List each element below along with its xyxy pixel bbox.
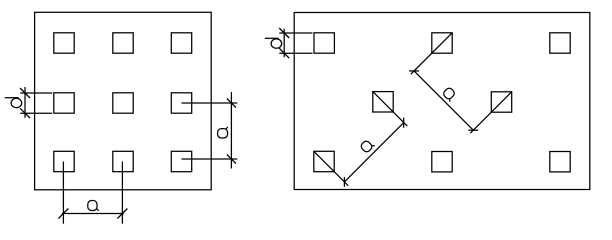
chain B: dimension line	[414, 71, 473, 130]
dimension d (left): dimension line	[24, 87, 26, 118]
hole (row2,col3)	[171, 93, 191, 113]
dimension a (bottom): extension line left	[62, 162, 64, 224]
dimension d (left): extension line bottom	[20, 112, 52, 114]
dimension d (left): tick bottom	[20, 108, 30, 118]
dimension a (bottom): tick right	[117, 209, 127, 219]
dimension d (right plate): tick bottom	[279, 48, 289, 58]
dimension d (left): extension line top	[20, 92, 52, 94]
chain B: diagonal of hole M4 extended (extension line)	[470, 92, 511, 133]
hole (row1,col3)	[171, 33, 191, 53]
hole (row2,col2)	[113, 93, 133, 113]
hole (row3,col3)	[171, 151, 191, 171]
chain A: diagonal of hole M1 extended (extension line)	[314, 151, 348, 185]
chain A: dimension line	[344, 123, 403, 182]
dimension d (right plate): dimension line	[283, 29, 285, 57]
plate outline left	[35, 12, 212, 190]
hole bottom-left M1	[314, 151, 334, 171]
chain B: diagonal of hole M3 extended (extension line)	[411, 33, 452, 74]
hole mid-right M4	[491, 92, 511, 112]
hole (row2,col1)	[54, 93, 74, 113]
dimension d (left): tick top	[20, 88, 30, 98]
dimension a (right side): extension line top	[182, 102, 238, 104]
chain B: label a	[442, 87, 457, 102]
hole (row3,col1)	[54, 151, 74, 171]
hole top-middle M3	[432, 33, 452, 53]
dimension a (right side): tick bottom	[227, 155, 236, 164]
hole bottom-right	[550, 152, 570, 172]
dimension d (left): label d	[5, 98, 22, 108]
hole (row1,col1)	[54, 33, 74, 53]
dimension a (bottom): dimension line	[62, 213, 124, 215]
chain B: tick lower (horizontal)	[468, 129, 478, 131]
chain A: label a	[360, 138, 375, 153]
dimension a (right side): dimension line	[230, 92, 232, 169]
chain A: diagonal of hole M2 extended (extension line)	[373, 92, 408, 127]
dimension a (right side): extension line bottom	[182, 158, 238, 160]
dimension a (right side): label a	[218, 127, 228, 138]
hole (row1,col2)	[113, 33, 133, 53]
dimension a (bottom): tick left	[58, 209, 68, 219]
chain B: tick upper (horizontal)	[409, 70, 419, 72]
hole bottom-middle	[432, 152, 452, 172]
hole top-right	[550, 33, 570, 53]
dimension a (right side): tick top	[227, 99, 236, 108]
plate outline right	[294, 13, 590, 190]
chain A: tick upper (vertical)	[403, 118, 405, 128]
dimension a (bottom): extension line right	[121, 162, 123, 224]
chain A: tick lower (vertical)	[343, 177, 345, 187]
dimension a (bottom): label a	[88, 201, 99, 211]
dimension d (right plate): tick top	[279, 28, 289, 38]
hole mid-left M2	[373, 92, 393, 112]
hole top-left	[314, 33, 334, 53]
dimension d (right plate): label d	[265, 38, 282, 48]
dimension d (right plate): extension line bottom	[279, 52, 312, 54]
hole (row3,col2)	[113, 151, 133, 171]
dimension d (right plate): extension line top	[279, 32, 312, 34]
